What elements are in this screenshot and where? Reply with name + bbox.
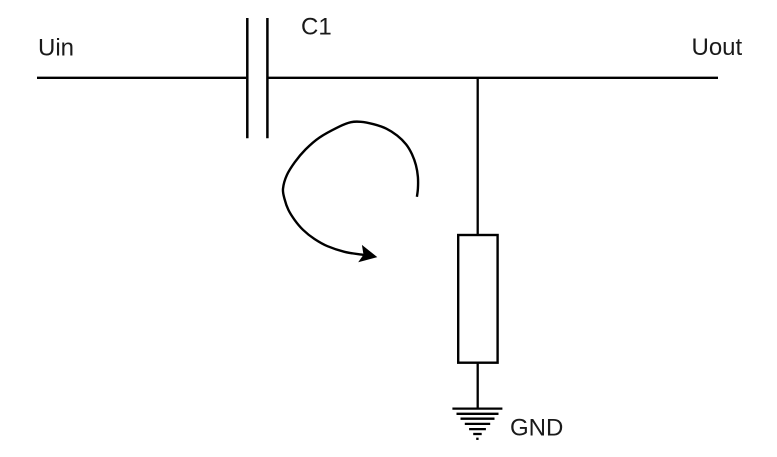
current loop arrow (curved annotation) bbox=[283, 122, 418, 263]
ground symbol bbox=[452, 409, 502, 439]
wire: resistor R1 bottom to ground bbox=[477, 363, 479, 409]
capacitor C1 right plate bbox=[266, 18, 269, 138]
svg-text:Uin: Uin bbox=[38, 34, 74, 61]
resistor R1 body bbox=[458, 235, 497, 363]
capacitor C1 left plate bbox=[246, 18, 249, 138]
wire: C1 right plate to Uout bbox=[269, 77, 719, 79]
wire input: Uin to C1 left plate bbox=[37, 77, 246, 79]
svg-text:C1: C1 bbox=[301, 14, 332, 41]
svg-text:Uout: Uout bbox=[692, 34, 743, 61]
wire: junction node to resistor R1 top bbox=[477, 78, 479, 235]
svg-text:GND: GND bbox=[510, 414, 563, 441]
